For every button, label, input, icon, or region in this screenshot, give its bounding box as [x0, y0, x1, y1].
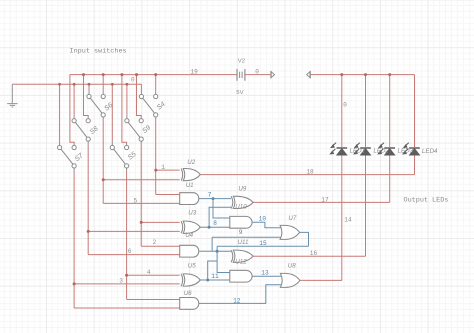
svg-text:V2: V2 [238, 58, 245, 64]
svg-text:0: 0 [131, 77, 135, 84]
svg-text:12: 12 [233, 297, 241, 304]
svg-text:U3: U3 [188, 210, 196, 217]
svg-text:14: 14 [344, 216, 352, 223]
svg-text:7: 7 [208, 191, 212, 198]
svg-text:11: 11 [211, 273, 219, 280]
svg-text:10: 10 [259, 216, 267, 223]
svg-text:Input switches: Input switches [70, 48, 127, 56]
svg-text:0: 0 [255, 69, 259, 76]
svg-text:1: 1 [161, 164, 165, 171]
svg-text:9: 9 [239, 229, 243, 236]
svg-text:8: 8 [213, 220, 217, 227]
svg-text:17: 17 [321, 196, 329, 203]
svg-text:4: 4 [147, 269, 151, 276]
svg-text:6: 6 [128, 248, 132, 255]
svg-text:LED1: LED1 [350, 148, 365, 155]
svg-text:LED4: LED4 [422, 148, 438, 155]
svg-text:U10: U10 [235, 204, 247, 211]
svg-text:U11: U11 [238, 239, 249, 246]
svg-text:0: 0 [343, 102, 347, 109]
svg-text:16: 16 [310, 250, 318, 257]
svg-text:LED2: LED2 [373, 148, 389, 155]
svg-text:U8: U8 [288, 262, 296, 269]
svg-text:5: 5 [134, 197, 138, 204]
svg-text:U5: U5 [188, 263, 196, 270]
svg-text:2: 2 [153, 239, 157, 246]
svg-text:15: 15 [259, 240, 267, 247]
svg-text:5V: 5V [236, 90, 243, 96]
svg-text:U2: U2 [187, 159, 195, 166]
svg-text:U7: U7 [288, 215, 296, 222]
svg-text:U1: U1 [186, 182, 194, 189]
svg-text:19: 19 [191, 69, 199, 76]
svg-text:18: 18 [306, 169, 314, 176]
svg-text:3: 3 [119, 277, 123, 284]
svg-text:LED3: LED3 [398, 148, 414, 155]
svg-text:Output LEDs: Output LEDs [404, 197, 449, 205]
svg-text:U12: U12 [235, 258, 247, 265]
svg-text:13: 13 [261, 269, 269, 276]
svg-text:U6: U6 [184, 290, 192, 297]
svg-text:U4: U4 [185, 232, 193, 239]
svg-text:U9: U9 [238, 185, 246, 192]
